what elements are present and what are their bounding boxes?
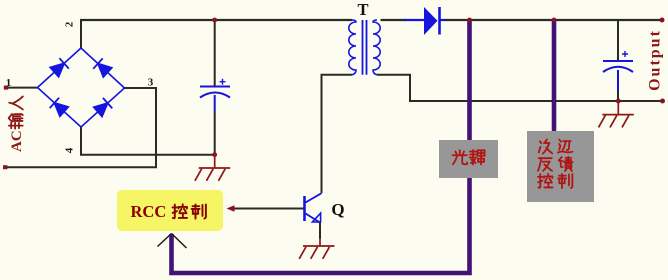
transformer T secondary winding [373, 20, 380, 75]
svg-text:Output: Output [647, 29, 664, 91]
wire: secondary bottom to output return rail [377, 75, 662, 101]
junction dot: opto feedback tap [467, 18, 472, 23]
junction dot: C1 / node4 / ground [212, 152, 217, 157]
svg-text:4: 4 [64, 147, 76, 153]
wire: primary bottom to Q collector [322, 75, 353, 193]
junction dot: C1 tap [212, 18, 217, 23]
wire: AC line2 to bridge node 3 [7, 88, 156, 167]
bridge diode D2 (node3->node2) [93, 58, 112, 77]
svg-text:RCC: RCC [131, 202, 167, 221]
bridge diode D4 (node4->node3) [94, 98, 113, 117]
terminal: output return [660, 99, 665, 104]
wire: tap down to C1 [214, 20, 216, 86]
block: 光耦 optocoupler [439, 140, 498, 178]
ground: primary side [214, 155, 216, 168]
junction dot: secondary feedback tap [552, 18, 557, 23]
capacitor C1 (bulk electrolytic) [200, 79, 230, 111]
terminal: AC input line 2 [3, 165, 7, 169]
wire: tap down to C2 [617, 20, 619, 61]
svg-text:AC: AC [9, 130, 25, 152]
bridge diode D3 (node4->node1) [50, 98, 68, 117]
transformer T primary winding [349, 20, 356, 75]
wire: emitter down [319, 223, 321, 240]
feedback net: secondary control branch (purple) [552, 20, 557, 132]
arrow: feedback into RCC control [158, 234, 187, 249]
svg-text:T: T [357, 0, 368, 19]
block: 次边反馈控制 secondary feedback control [527, 131, 594, 202]
wire: node 2 up to top bus [80, 20, 82, 48]
junction dot: C2 / ground / return [616, 99, 621, 104]
wire: C2 to return rail [617, 92, 619, 101]
diode D5 output rectifier [404, 7, 445, 35]
ground: output [617, 101, 619, 115]
transistor Q (NPN) [305, 193, 322, 222]
text: AC输入 (rotated) [9, 96, 25, 152]
wire: node 4 rail [81, 127, 215, 155]
wire: top bus segments [80, 19, 662, 21]
feedback net: optocoupler branch (purple) [172, 20, 470, 273]
bridge diode D1 (node1->node2) [50, 58, 69, 76]
ground: emitter [319, 238, 321, 246]
terminal: output positive [660, 18, 665, 23]
block: RCC 控制 [117, 190, 223, 231]
svg-text:2: 2 [64, 21, 76, 27]
bridge rectifier: diamond wiring [38, 48, 125, 127]
svg-text:1: 1 [6, 77, 12, 89]
transformer T core [363, 20, 367, 75]
arrowhead: into RCC control from Q base [227, 205, 235, 211]
svg-text:Q: Q [331, 200, 344, 219]
terminal: AC input line 1 [4, 86, 8, 90]
wire: AC line1 to bridge node 1 [8, 87, 38, 89]
wire: Q base drive [234, 208, 304, 210]
wire: C1 down to node4 rail [214, 111, 216, 155]
capacitor C2 (output electrolytic) [603, 51, 633, 92]
svg-text:3: 3 [148, 77, 154, 89]
